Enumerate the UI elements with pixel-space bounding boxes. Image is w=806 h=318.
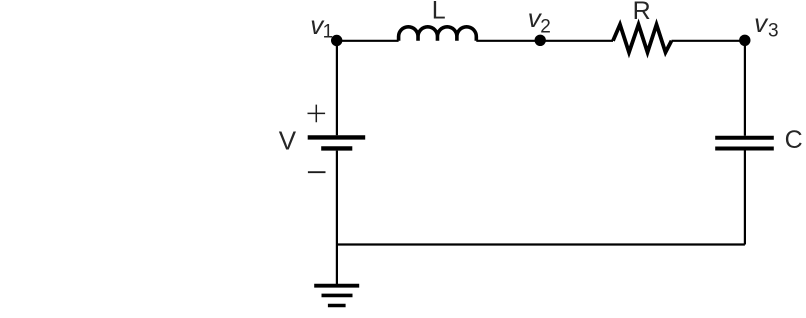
- svg-text:3: 3: [768, 21, 779, 42]
- node v1 dot: [331, 35, 342, 46]
- ground bar 2: [322, 294, 353, 298]
- battery plus sign: [308, 105, 326, 123]
- svg-text:V: V: [279, 126, 297, 156]
- svg-text:L: L: [432, 0, 446, 25]
- svg-text:C: C: [785, 126, 803, 154]
- capacitor C bottom plate: [715, 147, 774, 151]
- svg-text:v: v: [754, 8, 769, 38]
- wire top: inductor to resistor: [476, 40, 613, 42]
- battery minus sign: [308, 171, 326, 173]
- resistor R: [613, 25, 672, 53]
- svg-text:1: 1: [323, 21, 334, 42]
- wire: battery to bottom junction and to ground: [336, 151, 338, 284]
- wire bottom horizontal: [337, 243, 745, 245]
- wire: right vertical v3 to capacitor: [744, 41, 746, 136]
- wire top: resistor to v3: [672, 40, 745, 42]
- node v2 dot: [535, 35, 546, 46]
- inductor L: [399, 27, 477, 41]
- node v3 dot: [739, 35, 750, 46]
- svg-text:R: R: [633, 0, 651, 25]
- battery V long plate: [308, 135, 366, 139]
- battery V short plate: [321, 146, 352, 150]
- wire: left vertical v1 to battery: [336, 41, 338, 135]
- ground bar 3: [328, 304, 346, 308]
- capacitor C top plate: [715, 136, 774, 140]
- ground bar 1: [314, 284, 359, 288]
- wire: capacitor to bottom wire: [744, 151, 746, 245]
- svg-text:2: 2: [540, 17, 551, 38]
- wire top: v1 to inductor: [337, 40, 399, 42]
